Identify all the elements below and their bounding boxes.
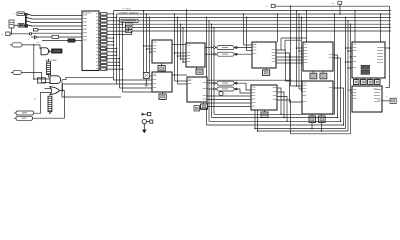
wire U4a left pins	[144, 45, 153, 47]
wire bus line 4	[123, 20, 392, 22]
wire J1 net	[22, 45, 40, 49]
wire U3 row 1 to bus	[107, 13, 114, 15]
component U2 driver box	[18, 23, 24, 27]
wire U3 rail 7 bottom run	[114, 79, 153, 81]
wire U5b lower row	[207, 106, 251, 108]
IC U10	[352, 86, 382, 112]
wire U3 rail 16 bottom run	[123, 91, 153, 93]
wire U3 row 7 to bus	[107, 31, 132, 35]
wire tap to corner SE 1	[345, 17, 347, 128]
wire rails to U4b	[143, 73, 145, 77]
wire port P1 net	[275, 5, 390, 7]
diode D1 small	[34, 29, 38, 31]
wire tap to U4 rail 4	[182, 28, 184, 62]
wire tap to U8 rail	[296, 11, 298, 86]
wire U3 row 8 down	[105, 37, 114, 39]
port P2 drop join	[290, 6, 292, 86]
component D3 dark inline	[68, 39, 75, 42]
wire X1 down	[11, 28, 13, 34]
net label dark HOST box	[52, 49, 63, 53]
wire tap to U4 rail	[174, 14, 176, 81]
wire left rail down	[33, 45, 35, 79]
wire host row 1	[32, 15, 82, 17]
wire over U6b	[207, 79, 291, 81]
jumper JP1	[126, 23, 133, 26]
wire G1 out	[50, 50, 52, 52]
wire U3 row 4 to bus	[107, 23, 123, 25]
capacitor C5 below U6a	[265, 68, 267, 70]
diamond junction R5L	[213, 82, 216, 84]
wire P2-drop to U8	[291, 85, 297, 87]
wire row 6	[37, 36, 82, 38]
wire tap to corner SW	[334, 14, 336, 114]
wire tap to U9 top	[354, 11, 356, 42]
wire U2 to fan	[24, 24, 27, 25]
diamond junction R4L	[213, 53, 216, 55]
wire tap to U8 rail 3	[301, 17, 303, 92]
IC U4a	[152, 40, 172, 63]
wire P3 net	[10, 33, 29, 35]
U10 internal labels	[374, 88, 380, 91]
wire U3 row 6 to bus	[107, 28, 129, 32]
connector J2	[13, 70, 22, 74]
capacitor C11 filter	[143, 73, 149, 79]
wire G2 out	[62, 77, 114, 79]
wire U5b left pins	[175, 80, 188, 82]
wire tap to U8 rail 2	[298, 14, 300, 89]
gate G2 AND	[50, 76, 61, 84]
wire U6b bottom drop 2	[257, 110, 259, 131]
wire far right to U10	[386, 87, 390, 89]
wire U3 row 5 to bus	[107, 24, 126, 28]
wire J4 net	[33, 117, 65, 119]
component SW dark block 2	[361, 70, 370, 74]
wire tap stubs to U6a	[244, 44, 253, 46]
diode D2 small	[35, 36, 38, 39]
U3 right pin 9 + resistor	[99, 41, 101, 43]
U3 right pin 15 + resistor	[99, 61, 101, 63]
wire U3 row 12 stub	[107, 51, 117, 53]
wire tap to U6 pin	[243, 14, 245, 45]
wire R5 to U6b	[234, 83, 251, 90]
wire U3 row 11 down	[105, 47, 117, 49]
wire U6b out nest 3	[277, 97, 287, 122]
connector J1	[12, 43, 22, 47]
wire U9 right pin	[385, 47, 390, 49]
wire link row B	[285, 39, 302, 41]
LED D4 indicator	[219, 92, 223, 96]
U3 right pin 1 + resistor	[99, 13, 101, 15]
connector J3	[16, 111, 34, 115]
connector fan bracket	[25, 13, 27, 28]
wire row 5	[32, 32, 82, 34]
U9 internal labels	[377, 46, 383, 49]
wire U3 row 13 stub	[107, 54, 117, 56]
wire row 7	[42, 40, 82, 42]
wire U3 rail 1	[113, 11, 115, 80]
resistor R4	[217, 52, 234, 56]
resistor RN2 ladder	[47, 62, 51, 75]
diamond junction R3R	[235, 46, 238, 48]
U3 right pin 4 + resistor	[99, 23, 101, 25]
capacitor C2 below U4b	[162, 92, 164, 94]
wire P5 stub	[200, 107, 207, 109]
wire bottom bus 1	[214, 113, 335, 115]
gate G1 buffer	[41, 48, 49, 55]
svg-text:MegaSq: MegaSq	[83, 13, 92, 15]
wire R3 to U6	[234, 47, 252, 49]
wire tick above bus at 186.5	[186, 9, 188, 11]
wire U5a left pins	[175, 52, 187, 54]
wire U7 xtal1	[333, 55, 338, 118]
wire U5b to R6	[207, 88, 217, 90]
wire bus line 2	[117, 13, 392, 15]
component X1 oscillator	[9, 20, 14, 28]
wire U6b out nest 4	[277, 100, 351, 134]
ground GND1	[143, 124, 145, 130]
wire taps to U9	[346, 47, 353, 49]
wire U3 rail 13 bottom run	[120, 87, 153, 89]
IC U7	[303, 42, 333, 71]
wire tap to U3 rail 2	[146, 14, 148, 73]
wire bus line 6	[129, 27, 392, 29]
U3 right pin 8 + resistor	[99, 37, 101, 39]
wire U4a out	[172, 44, 186, 46]
capacitor C1 below U4a	[161, 63, 163, 66]
wire tap to bottom bus 1	[206, 17, 208, 125]
capacitor C10 below U8	[321, 114, 323, 116]
IC U5b	[187, 77, 207, 102]
wire tap to corner SE 2	[347, 21, 349, 131]
wire bottom bus 6	[258, 130, 349, 132]
crystal Y1 ladder	[48, 96, 52, 112]
svg-text:a1: a1	[225, 94, 227, 96]
wire U3 rail 3	[119, 17, 121, 88]
ground GND2	[145, 83, 149, 85]
wire U6b out nest 2	[277, 92, 284, 118]
wire U10 out port	[382, 100, 390, 102]
wire port P2 drop	[339, 4, 341, 14]
wire U8 right out	[333, 88, 344, 125]
wire U5a to R4	[205, 53, 217, 55]
capacitor C9 below U8	[311, 114, 313, 116]
capacitor row below U9	[355, 78, 357, 80]
wire tap to bottom bus 4	[213, 28, 215, 115]
wire bus line 3	[120, 16, 392, 18]
U3 right pin 5 + resistor	[99, 27, 101, 29]
component SW dark block 1	[361, 65, 370, 69]
resistor R2 inline	[52, 36, 59, 39]
wire rail to G2	[34, 78, 50, 80]
wire row 5b	[38, 29, 82, 31]
IC U9	[352, 42, 385, 78]
wire tap short	[277, 14, 279, 42]
wire U7 xtal2	[333, 58, 341, 121]
wire long under U3	[62, 80, 121, 97]
diamond junction R6R	[235, 88, 238, 90]
U3 right pin 6 + resistor	[99, 30, 101, 32]
wire U3 row 15 stub	[107, 61, 120, 63]
wire C11 down	[145, 79, 147, 85]
diamond junction R3L	[213, 46, 216, 48]
U3 right pin 14 + resistor	[99, 58, 101, 60]
wire taps to U7	[297, 47, 304, 49]
wire tap to U4 rail 3	[180, 24, 182, 59]
wire tap to corner SE 3	[350, 24, 352, 134]
wire Y1 bottom join	[49, 112, 51, 114]
U3 right pin 7 + resistor	[99, 34, 101, 36]
wire U5b to R5	[207, 82, 217, 84]
diamond junction R6L	[213, 88, 216, 90]
port P4 right	[390, 98, 396, 103]
wire U6a out bends	[276, 50, 302, 81]
wire tap inside right	[380, 14, 382, 42]
U3 right pin 2 + resistor	[99, 16, 101, 18]
wire tap to bottom bus 3	[211, 24, 213, 117]
wire R4 to U6	[234, 53, 252, 55]
wire U3 row 16 stub	[107, 65, 120, 67]
wire U3 row 2 to bus	[107, 16, 117, 18]
U3 right pin 17 + resistor	[99, 68, 101, 70]
wire G3 out loop	[60, 91, 65, 119]
capacitor C8 below U7	[322, 71, 324, 73]
wire far right drop	[389, 6, 391, 87]
wire bottom bus 2	[212, 117, 338, 119]
U3 right pin 11 + resistor	[99, 47, 101, 49]
wire bottom bus 4	[207, 124, 344, 126]
wire U3 rail 4	[122, 21, 124, 92]
wire U6a to U7 rows	[276, 56, 303, 58]
port P5 bottom	[194, 106, 200, 111]
wire tap to bottom bus 2	[208, 21, 210, 122]
resistor R6	[217, 87, 234, 91]
wire caps to bottom bus	[311, 122, 313, 128]
wire U3 row 9 stub	[107, 41, 114, 43]
wire U3 rail 2	[116, 14, 118, 84]
wire U6b bottom drop 1	[254, 110, 256, 129]
wire J3 net	[34, 93, 51, 114]
svg-text:y1: y1	[34, 99, 36, 101]
wire bottom bus 3	[209, 120, 341, 122]
wire bus line 1	[114, 10, 392, 12]
wire tap to U4 rail 2	[177, 17, 179, 84]
diamond junction R4R	[235, 53, 238, 55]
wire G3 in1	[45, 88, 51, 90]
gate G3 OR	[50, 87, 60, 95]
label box G-cluster	[38, 78, 46, 83]
wire bottom bus 5	[255, 128, 346, 130]
U3 right pin 3 + resistor	[99, 20, 101, 22]
capacitor C3 below U5a	[196, 67, 198, 69]
wire tap to U3 rail 3	[149, 17, 151, 72]
power sym PWR2	[142, 119, 146, 123]
U3 right pin 16 + resistor	[99, 65, 101, 67]
capacitor C4 below U5b	[203, 102, 205, 104]
IC U8	[302, 81, 333, 114]
diamond junction R5R	[235, 82, 238, 84]
svg-text:vcc: vcc	[332, 3, 335, 5]
wire link row A	[281, 37, 307, 39]
wire host row 2	[32, 18, 82, 20]
wire tap thick to U7	[306, 11, 308, 42]
wire RN2 top stub	[48, 59, 50, 62]
wire U3 row 10 stub	[107, 44, 114, 46]
IC U6a	[252, 42, 276, 68]
U3 right pin 13 + resistor	[99, 54, 101, 56]
wire J2 net	[22, 72, 51, 82]
IC U5a	[186, 43, 205, 67]
junction bead	[29, 33, 31, 35]
wire RN2 bottom	[48, 75, 50, 78]
wire U5a to R3	[205, 47, 217, 49]
wire taps to U8	[297, 85, 303, 87]
wire taps to U10	[348, 89, 352, 91]
wire tap to U3 rail	[143, 11, 145, 73]
wire U3 row 17 down	[105, 68, 123, 70]
connector J4	[16, 116, 33, 120]
wire U3 rail 10 bottom run	[117, 83, 153, 85]
wire tap to U6 pin 2	[246, 17, 248, 50]
wire tap to U4 top	[186, 11, 188, 43]
wire U3 row 3 to bus	[107, 20, 120, 22]
svg-text:ck: ck	[1, 34, 3, 36]
wire bus line 5	[126, 23, 392, 25]
wire R1 to fan	[24, 13, 25, 15]
wire bus line 7	[132, 30, 392, 32]
jumper JP2	[126, 26, 133, 29]
wire U6b out nest 1	[277, 88, 281, 114]
wire link risers	[280, 38, 282, 50]
wire host row 4	[32, 25, 82, 27]
IC U6b	[251, 85, 277, 110]
U3 right pin 12 + resistor	[99, 51, 101, 53]
wire U4b out	[172, 74, 187, 76]
capacitor C6 below U6b	[264, 110, 266, 112]
svg-text:CONNECT DATA BUS: CONNECT DATA BUS	[119, 11, 140, 14]
jumper JP3	[126, 30, 133, 33]
label box JP config on bus 4	[121, 19, 138, 22]
wire X1 to U2	[14, 24, 18, 26]
power flag PWR1	[141, 113, 147, 115]
IC U3 main	[82, 11, 99, 71]
resistor R3	[217, 46, 234, 50]
resistor R5	[217, 81, 234, 85]
wire host row 3	[32, 22, 82, 24]
capacitor C7 below U7	[312, 71, 314, 73]
wire G3 out up branch	[63, 84, 117, 91]
U3 right pin 10 + resistor	[99, 44, 101, 46]
wire U5b rows to U6b	[207, 95, 251, 97]
IC U4b	[152, 72, 172, 92]
wire U3 row 14 down	[105, 58, 120, 60]
wire R6 to U6b	[234, 89, 251, 93]
